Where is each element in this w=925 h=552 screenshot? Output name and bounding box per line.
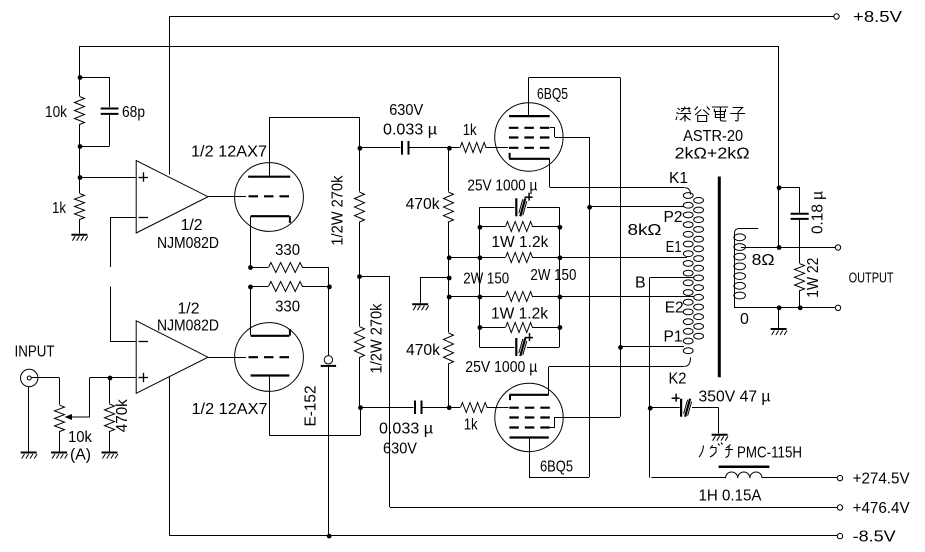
label 0 (740, 311, 749, 328)
resistor 1.2k 1W (upper) (478, 222, 563, 252)
label OUTPUT (849, 270, 894, 287)
node A (10k/68p top) (78, 75, 83, 80)
svg-text:0: 0 (740, 311, 749, 328)
wire (wiper to op-amp U2 +) (90, 377, 136, 379)
wire -8.5V rail (169, 534, 837, 539)
svg-text:630V: 630V (383, 441, 417, 458)
wire (V3 cathode to K1) (550, 159, 691, 195)
terminal OUTPUT cold (835, 305, 840, 310)
wire (V1 plate to coupling cap) (269, 117, 359, 176)
svg-text:P1: P1 (664, 329, 683, 346)
resistor 150 2W (upper) (449, 253, 563, 288)
svg-text:+274.5V: +274.5V (853, 471, 910, 488)
transformer core (718, 177, 721, 378)
transformer T1 secondary (734, 229, 758, 308)
node N (470k/ground column lower) (447, 295, 452, 300)
jack E-152 (302, 286, 336, 535)
svg-text:P2: P2 (664, 209, 683, 226)
node Q (feedback tap) (777, 245, 782, 250)
node L (470k lower bottom) (447, 405, 452, 410)
wire (V4 plate to P2 line) (529, 438, 589, 478)
wire (V3 screen to P2 node) (550, 127, 590, 477)
label E2 + wire (559, 297, 694, 317)
svg-text:PMC-115H: PMC-115H (737, 445, 802, 462)
svg-text:10k: 10k (68, 429, 93, 446)
node S (Zobel bottom) (798, 305, 803, 310)
node D (op-amp U2 + input) (108, 376, 113, 381)
svg-text:470k: 470k (406, 342, 441, 359)
ground (potentiometer) (51, 453, 67, 459)
wire (U1 output to 12AX7 V1 grid) (208, 196, 246, 198)
svg-text:+8.5V: +8.5V (853, 9, 902, 26)
svg-text:+476.4V: +476.4V (853, 500, 910, 517)
svg-text:1/2: 1/2 (181, 217, 203, 234)
wire E1 tap (559, 257, 687, 259)
svg-text:(A): (A) (70, 447, 91, 464)
ground (bias network) (412, 304, 428, 310)
wire +476.4V rail (390, 507, 837, 509)
svg-text:25V 1000 µ: 25V 1000 µ (467, 178, 537, 195)
node P (P1 junction) (618, 345, 684, 350)
svg-text:0.033 µ: 0.033 µ (383, 122, 437, 139)
node M (470k/ground column upper) (447, 255, 452, 260)
svg-text:630V: 630V (389, 102, 423, 119)
svg-text:1W 1.2k: 1W 1.2k (491, 305, 549, 322)
svg-text:E1: E1 (666, 239, 682, 256)
resistor 470k (input) (105, 378, 132, 452)
wire (bias network left column) (479, 207, 481, 347)
resistor 22 1W (Zobel) (795, 258, 822, 308)
choke L1 PMC-115H (651, 467, 837, 478)
ground (1k) (71, 235, 87, 241)
wire (U2 - feedback) (110, 287, 136, 342)
node K (V2 plate node) (358, 405, 363, 410)
capacitor 68p (80, 77, 146, 147)
svg-text:OUTPUT: OUTPUT (849, 270, 894, 287)
capacitor 1000u 25V (upper) (467, 178, 559, 217)
svg-text:0.18 µ: 0.18 µ (809, 191, 826, 234)
potentiometer 10k(A) (55, 378, 93, 464)
svg-text:2W 150: 2W 150 (530, 267, 576, 284)
triode V2 1/2 12AX7 (192, 323, 304, 418)
node R (Zobel tee) (777, 185, 800, 190)
triode V1 1/2 12AX7 (191, 144, 303, 232)
svg-text:NJM082D: NJM082D (157, 318, 219, 335)
resistor 1.2k 1W (lower) (478, 305, 563, 332)
svg-text:68p: 68p (122, 104, 145, 121)
label P1 (664, 329, 683, 346)
label INPUT (15, 344, 55, 361)
node F (V2 cathode / feedback) (248, 285, 253, 290)
transformer T1 ASTR-20 primary (683, 193, 703, 354)
svg-text:1H 0.15A: 1H 0.15A (699, 488, 762, 505)
resistor 270k 1/2W (lower) (355, 276, 386, 407)
ground (output common) (771, 329, 787, 335)
node H (270k junction) (357, 274, 362, 279)
wire (V4 screen to P1 node) (550, 417, 620, 428)
wire (270k junction to +476.4V) (359, 276, 390, 507)
svg-text:1/2 12AX7: 1/2 12AX7 (192, 401, 268, 418)
node I (V1 plate node) (358, 146, 363, 151)
svg-text:6BQ5: 6BQ5 (537, 86, 568, 103)
resistor 1k (to ground) (52, 177, 85, 234)
svg-text:K2: K2 (669, 371, 687, 388)
label K2 (669, 371, 687, 388)
svg-text:-8.5V: -8.5V (853, 529, 896, 546)
svg-text:0.033 µ: 0.033 µ (379, 421, 433, 438)
svg-text:1/2W 270k: 1/2W 270k (369, 303, 386, 374)
capacitor 1000u 25V (lower) (465, 333, 559, 376)
wire 8 ohm tap to OUTPUT (741, 247, 835, 249)
node B (10k/68p bottom) (78, 144, 83, 177)
svg-text:INPUT: INPUT (15, 344, 55, 361)
svg-text:350V 47 µ: 350V 47 µ (699, 389, 771, 406)
resistor 470k (upper grid leak) (406, 148, 454, 257)
svg-text:8kΩ: 8kΩ (628, 222, 662, 239)
label P2 (664, 209, 683, 226)
wire (bias network right column) (559, 207, 561, 347)
svg-text:E2: E2 (665, 300, 684, 317)
resistor 1k (V3 grid stopper) (449, 122, 508, 153)
label E1 (666, 239, 682, 256)
label 8k ohm (628, 222, 662, 239)
svg-text:10k: 10k (45, 104, 68, 121)
svg-text:B: B (635, 275, 646, 292)
label K1 (669, 170, 688, 187)
label NOGUCHI PMC-115H (699, 443, 802, 462)
svg-text:330: 330 (275, 242, 300, 259)
resistor 1k (V4 grid stopper) (449, 403, 509, 434)
label B + wire (635, 275, 694, 478)
resistor 10k (feedback) (45, 77, 85, 146)
ground (input jack) (21, 387, 37, 459)
svg-text:25V 1000 µ: 25V 1000 µ (465, 359, 537, 376)
svg-text:2W 150: 2W 150 (463, 271, 509, 288)
svg-text:6BQ5: 6BQ5 (540, 459, 573, 476)
node E (V1 cathode / feedback) (248, 265, 253, 270)
resistor 470k (lower grid leak) (406, 297, 454, 408)
svg-text:2kΩ+2kΩ: 2kΩ+2kΩ (675, 146, 750, 163)
wire (V4 cathode to K2) (549, 357, 691, 394)
svg-text:8Ω: 8Ω (752, 252, 775, 269)
svg-text:1/2: 1/2 (178, 301, 200, 318)
svg-text:330: 330 (275, 299, 300, 316)
node U (B+ / 350V cap) (648, 406, 653, 411)
wire +8.5V rail (170, 16, 837, 175)
wire (V2 plate to coupling cap) (269, 376, 360, 436)
resistor 150 2W (lower) (449, 267, 577, 302)
svg-text:1/2W 270k: 1/2W 270k (330, 175, 347, 246)
pentode V4 6BQ5 (lower) (495, 383, 573, 475)
svg-text:ASTR-20: ASTR-20 (683, 128, 743, 145)
terminal OUTPUT hot (835, 245, 840, 250)
node J (470k upper top) (447, 146, 452, 151)
op-amp U2 1/2 NJM082D (136, 301, 219, 394)
node O (P2 junction) (587, 205, 684, 210)
terminal -8.5V (837, 529, 896, 546)
svg-text:1/2 12AX7: 1/2 12AX7 (191, 144, 267, 161)
capacitor 0.033u 630V (upper) (359, 102, 449, 155)
svg-text:1k: 1k (464, 417, 479, 434)
input jack J1 (21, 369, 60, 404)
wire feedback rail (output to 10k) (80, 46, 779, 247)
wire (ground tee) (420, 257, 451, 303)
wire (U2 output to 12AX7 V2 grid) (208, 357, 246, 359)
node G (330 junction) (327, 285, 332, 290)
svg-text:K1: K1 (669, 170, 688, 187)
node C (op-amp U1 + input) (78, 175, 136, 180)
wire (V1 cathode) (250, 217, 252, 268)
terminal +8.5V (834, 9, 903, 26)
resistor 330 (lower) (250, 282, 329, 316)
svg-text:1k: 1k (463, 122, 478, 139)
svg-text:1W 22: 1W 22 (805, 258, 822, 298)
svg-text:470k: 470k (114, 398, 131, 432)
svg-text:NJM082D: NJM082D (157, 235, 219, 252)
wire 0 tap (734, 307, 835, 309)
label 1H 0.15A (699, 488, 762, 505)
terminal +274.5V (837, 471, 910, 488)
label SOMEYA DENSHI ASTR-20 2k+2k (675, 107, 750, 163)
wire (V2 cathode) (250, 287, 252, 336)
capacitor 47u 350V (650, 389, 771, 434)
terminal +476.4V (837, 500, 910, 517)
resistor 330 (upper) (250, 242, 329, 286)
resistor 270k 1/2W (upper) (330, 148, 365, 276)
capacitor 0.18u (Zobel) (791, 187, 827, 263)
ground (350V cap) (712, 435, 728, 441)
svg-text:1k: 1k (52, 200, 67, 217)
wire (V3 plate to P1) (529, 78, 621, 417)
label 8 ohm (752, 252, 775, 269)
node T (output common ground) (777, 305, 782, 328)
svg-text:470k: 470k (406, 196, 441, 213)
wire (U2 V- to -8.5V rail) (169, 377, 171, 536)
ground (470k input) (102, 453, 118, 459)
svg-text:1W 1.2k: 1W 1.2k (491, 234, 549, 251)
pentode V3 6BQ5 (upper) (495, 86, 568, 171)
capacitor 0.033u 630V (lower) (360, 401, 449, 458)
op-amp U1 1/2 NJM082D (136, 161, 219, 253)
wire (U1 - feedback) (110, 217, 136, 267)
svg-text:E-152: E-152 (302, 385, 319, 426)
